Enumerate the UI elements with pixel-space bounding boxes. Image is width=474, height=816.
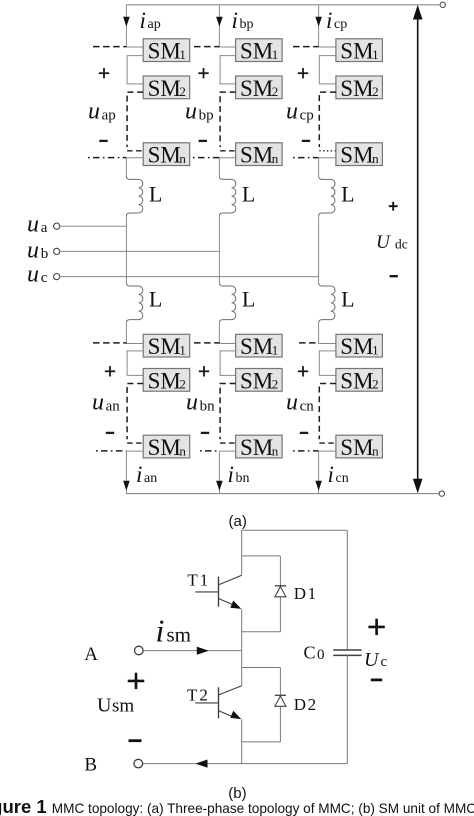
label uan [92, 390, 120, 416]
label iap [140, 8, 161, 33]
svg-text:cn: cn [336, 471, 349, 486]
svg-text:L: L [242, 181, 255, 206]
upper arm inductor L phase a [126, 176, 142, 216]
submodule SM2 (lower) [236, 368, 283, 393]
label - (ucn) [300, 432, 308, 434]
wire D2 branch bottom [242, 741, 281, 743]
node tick upper SMn (uap -) [88, 157, 126, 159]
node tick upper SMn (ucp -) [293, 157, 319, 159]
capacitor C0 [333, 650, 361, 655]
wire lower SMn to bottom bus [319, 451, 336, 494]
svg-text:Usm: Usm [97, 695, 134, 717]
svg-text:1: 1 [272, 47, 279, 62]
submodule SMn (upper) [236, 143, 283, 168]
arrow ism [197, 647, 209, 655]
bottom DC bus wire [126, 493, 439, 495]
svg-text:an: an [144, 471, 157, 486]
wire upper SM1 to SM2 loop [127, 56, 143, 84]
wire phase b between inductors [218, 216, 220, 283]
svg-text:2: 2 [179, 84, 186, 99]
wire D2 branch top [242, 667, 281, 669]
label + (ucp) [298, 68, 308, 78]
svg-text:SM: SM [148, 334, 181, 359]
svg-text:1: 1 [179, 343, 186, 358]
svg-text:cp: cp [334, 17, 347, 32]
label ibp [232, 8, 254, 33]
submodule SMn (upper) [336, 143, 383, 168]
label (a) [229, 513, 247, 530]
label ucp [286, 99, 314, 125]
dashed link into upper SMn [220, 150, 236, 152]
arrow icp current arrow [315, 17, 322, 27]
svg-text:SM: SM [340, 334, 373, 359]
svg-text:D2: D2 [294, 695, 316, 714]
wire upper SMn to arm inductor [219, 158, 235, 177]
label ibn [228, 462, 250, 487]
svg-text:u: u [27, 238, 39, 264]
wire phase c between inductors [318, 216, 320, 283]
dashed link into lower SMn [127, 442, 143, 444]
wire lower SM1 to SM2 loop [319, 351, 336, 376]
label D2 [294, 695, 316, 714]
bottom DC terminal [439, 491, 444, 496]
svg-text:ap: ap [102, 107, 116, 123]
label L upper phase c [341, 181, 354, 206]
svg-text:u: u [88, 99, 100, 125]
svg-text:bp: bp [240, 17, 254, 32]
arrow ibn current arrow [216, 481, 223, 491]
dashed link into lower SMn [319, 442, 336, 444]
wire A to midpoint [143, 650, 241, 652]
svg-text:ap: ap [148, 17, 161, 32]
node tick lower SM1 (ucn +) [299, 342, 319, 344]
svg-text:n: n [179, 151, 186, 166]
svg-text:u: u [286, 390, 298, 416]
wire phase a between inductors [125, 216, 127, 283]
wire D1 branch top [242, 555, 281, 557]
svg-text:U: U [364, 649, 380, 671]
wire ua [60, 225, 127, 227]
dashed continuation upper SM2 to SMn [127, 92, 143, 147]
node tick lower SM1 (ubn +) [194, 342, 219, 344]
svg-text:1: 1 [179, 47, 186, 62]
label + (Usm) [128, 673, 145, 689]
submodule SMn (upper) [143, 143, 190, 168]
top DC bus wire [126, 4, 440, 6]
submodule SMn (lower) [336, 435, 383, 460]
wire upper SM1 to SM2 loop [319, 56, 336, 84]
svg-text:c: c [41, 270, 48, 286]
label ucn [286, 390, 314, 416]
label L lower phase a [149, 286, 162, 311]
svg-text:SM: SM [240, 76, 273, 101]
svg-text:u: u [185, 99, 197, 125]
label - (ubn) [201, 432, 209, 434]
svg-text:n: n [272, 151, 279, 166]
label + (ubp) [198, 68, 208, 78]
label L upper phase a [149, 181, 162, 206]
svg-text:1: 1 [372, 47, 379, 62]
dashed link into upper SMn [319, 150, 336, 152]
svg-text:SM: SM [240, 435, 273, 460]
label L lower phase c [341, 286, 354, 311]
label - (uan) [106, 432, 114, 434]
svg-text:u: u [92, 390, 104, 416]
svg-text:L: L [149, 181, 162, 206]
svg-text:SM: SM [148, 435, 181, 460]
submodule SM1 (upper) [143, 39, 190, 64]
AC terminal uc [54, 274, 60, 280]
wire phase a from top bus to upper SM1 [126, 5, 143, 47]
label - (uap) [99, 140, 107, 142]
wire upper SM1 to SM2 loop [220, 56, 236, 84]
svg-text:SM: SM [340, 435, 373, 460]
top DC terminal [440, 2, 445, 7]
svg-text:L: L [341, 181, 354, 206]
AC terminal ub [54, 248, 60, 254]
svg-text:b: b [41, 246, 49, 262]
node tick lower SMn (ucn -) [293, 450, 319, 452]
label icn [328, 462, 349, 487]
label + (Udc) [389, 202, 398, 211]
label icp [326, 8, 347, 33]
svg-text:u: u [27, 211, 39, 237]
wire capacitor branch upper [346, 530, 348, 650]
svg-text:SM: SM [148, 39, 181, 64]
svg-text:u: u [27, 262, 39, 288]
svg-text:C0: C0 [304, 643, 325, 664]
svg-text:L: L [149, 286, 162, 311]
wire uc [60, 276, 319, 278]
svg-text:bn: bn [200, 398, 216, 414]
svg-text:SM: SM [240, 39, 273, 64]
svg-text:SM: SM [340, 368, 373, 393]
submodule SM1 (lower) [236, 334, 283, 359]
label uc [27, 262, 48, 288]
label ubn [186, 390, 215, 416]
label - (Uc) [371, 679, 382, 682]
svg-text:i: i [326, 8, 332, 33]
transistor T1 [195, 575, 241, 609]
arrow ian current arrow [123, 481, 130, 491]
node tick upper SM1 (uap +) [93, 46, 126, 48]
label Udc [376, 232, 408, 253]
wire upper SMn to arm inductor [126, 158, 143, 177]
label - (Udc) [390, 275, 398, 277]
wire main leg middle segment [241, 609, 243, 686]
label T1 [187, 571, 208, 590]
label + (ubn) [199, 366, 209, 376]
label D1 [294, 584, 316, 603]
svg-text:D1: D1 [294, 584, 316, 603]
label T2 [187, 685, 208, 704]
wire ub [60, 250, 220, 252]
wire capacitor branch lower [346, 655, 348, 763]
svg-text:(b): (b) [228, 785, 246, 802]
label - (ubp) [199, 140, 207, 142]
node tick upper SM1 (ubp +) [194, 46, 219, 48]
svg-text:i: i [232, 8, 238, 33]
arrow iap current arrow [123, 17, 130, 27]
label - (Usm) [129, 739, 142, 742]
svg-text:2: 2 [272, 84, 279, 99]
label uap [88, 99, 116, 125]
dashed continuation upper SM2 to SMn [319, 92, 336, 147]
label L upper phase b [242, 181, 255, 206]
wire top rail of SM unit [242, 529, 348, 531]
node tick upper SM1 (ucp +) [293, 46, 319, 48]
svg-text:sm: sm [167, 623, 192, 647]
svg-text:(a): (a) [229, 513, 247, 530]
wire lower SMn to bottom bus [219, 451, 235, 494]
upper arm inductor L phase b [219, 176, 235, 216]
submodule SM2 (upper) [143, 76, 190, 101]
wire main leg lower segment [241, 719, 243, 763]
transistor T2 [195, 686, 241, 719]
svg-text:2: 2 [372, 377, 379, 392]
label + (ucn) [298, 366, 308, 376]
upper arm inductor L phase c [319, 176, 335, 216]
figure caption [0, 796, 474, 816]
svg-text:u: u [286, 99, 298, 125]
node tick lower SM1 (uan +) [93, 342, 126, 344]
svg-text:bp: bp [199, 107, 214, 123]
label ub [27, 238, 48, 264]
svg-text:i: i [140, 8, 146, 33]
svg-text:2: 2 [372, 84, 379, 99]
svg-text:L: L [341, 286, 354, 311]
label B [84, 754, 97, 775]
submodule SMn (lower) [236, 435, 283, 460]
svg-text:SM: SM [240, 368, 273, 393]
label ubp [185, 99, 214, 125]
terminal B [134, 759, 143, 768]
AC terminal ua [54, 223, 60, 229]
wire lower SMn to bottom bus [126, 451, 143, 494]
label Uc [364, 649, 388, 671]
label + (uap) [99, 68, 109, 78]
submodule SM1 (lower) [336, 334, 383, 359]
wire inductor to lower SM1 [126, 323, 143, 344]
arrow out of B [196, 760, 208, 768]
svg-text:dc: dc [395, 237, 408, 252]
node tick lower SMn (ubn -) [200, 450, 219, 452]
svg-text:A: A [84, 644, 98, 665]
submodule SM2 (upper) [236, 76, 283, 101]
dashed continuation lower SM2 to SMn [319, 384, 336, 440]
lower arm inductor L phase a [126, 283, 142, 323]
submodule SMn (lower) [143, 435, 190, 460]
svg-text:SM: SM [340, 143, 373, 168]
label - (ucp) [302, 140, 310, 142]
svg-text:SM: SM [148, 368, 181, 393]
node tick upper SMn (ubp -) [193, 157, 219, 159]
lower arm inductor L phase c [319, 283, 335, 323]
svg-text:u: u [186, 390, 198, 416]
svg-text:cp: cp [300, 107, 314, 123]
svg-text:2: 2 [179, 377, 186, 392]
diode D1 [275, 556, 286, 632]
label + (Uc) [368, 619, 384, 635]
lower arm inductor L phase b [219, 283, 235, 323]
svg-text:MMC topology: (a) Three-phase: MMC topology: (a) Three-phase topology o… [52, 801, 474, 816]
label ua [27, 211, 48, 237]
svg-text:i: i [136, 462, 142, 487]
diode D2 [275, 668, 286, 742]
svg-text:1: 1 [272, 343, 279, 358]
Udc measurement line [413, 5, 423, 494]
svg-text:bn: bn [236, 471, 250, 486]
wire phase c from top bus to upper SM1 [319, 5, 336, 47]
svg-text:SM: SM [240, 334, 273, 359]
svg-text:i: i [156, 613, 165, 649]
dashed continuation lower SM2 to SMn [127, 384, 143, 440]
label A [84, 644, 98, 665]
svg-text:a: a [41, 220, 48, 236]
svg-text:an: an [106, 398, 121, 414]
submodule SM1 (lower) [143, 334, 190, 359]
svg-text:L: L [242, 286, 255, 311]
dashed link into upper SMn [127, 150, 143, 152]
svg-text:T2: T2 [187, 685, 208, 704]
wire inductor to lower SM1 [319, 323, 336, 344]
svg-text:B: B [84, 754, 97, 775]
wire lower SM1 to SM2 loop [127, 351, 143, 376]
label + (uan) [105, 366, 115, 376]
label ism [156, 613, 192, 649]
svg-text:SM: SM [340, 39, 373, 64]
svg-text:T1: T1 [187, 571, 208, 590]
wire phase b from top bus to upper SM1 [219, 5, 235, 47]
wire bottom rail of SM unit [143, 763, 347, 765]
wire main leg upper segment [241, 530, 243, 575]
svg-text:SM: SM [340, 76, 373, 101]
dashed link into lower SMn [220, 442, 236, 444]
wire upper SMn to arm inductor [319, 158, 336, 177]
terminal A [135, 646, 144, 655]
dashed continuation upper SM2 to SMn [220, 92, 236, 147]
arrow icn current arrow [315, 481, 322, 491]
svg-text:SM: SM [240, 143, 273, 168]
svg-text:n: n [179, 443, 186, 458]
submodule SM1 (upper) [236, 39, 283, 64]
svg-text:n: n [272, 443, 279, 458]
svg-text:SM: SM [148, 76, 181, 101]
label (b) [228, 785, 246, 802]
label ian [136, 462, 157, 487]
submodule SM2 (lower) [336, 368, 383, 393]
svg-text:2: 2 [272, 377, 279, 392]
svg-text:1: 1 [372, 343, 379, 358]
svg-text:i: i [328, 462, 334, 487]
label L lower phase b [242, 286, 255, 311]
wire inductor to lower SM1 [219, 323, 235, 344]
dashed continuation lower SM2 to SMn [220, 384, 236, 440]
wire D1 branch bottom [242, 631, 281, 633]
svg-text:i: i [228, 462, 234, 487]
submodule SM2 (upper) [336, 76, 383, 101]
label C0 [304, 643, 325, 664]
svg-text:U: U [376, 232, 391, 253]
node tick lower SMn (uan -) [96, 450, 126, 452]
svg-text:n: n [372, 151, 379, 166]
submodule SM1 (upper) [336, 39, 383, 64]
submodule SM2 (lower) [143, 368, 190, 393]
wire lower SM1 to SM2 loop [220, 351, 236, 376]
svg-text:n: n [372, 443, 379, 458]
arrow ibp current arrow [216, 17, 223, 27]
svg-text:c: c [381, 654, 388, 670]
label Usm [97, 695, 134, 717]
svg-text:cn: cn [300, 398, 315, 414]
svg-text:SM: SM [148, 143, 181, 168]
svg-text:Figure 1: Figure 1 [0, 796, 47, 816]
